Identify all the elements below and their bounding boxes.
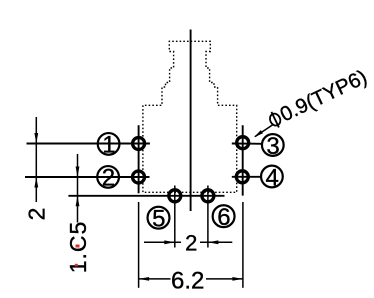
dimension 6.2 line left [139, 278, 171, 280]
dimension 6.2 line right [206, 278, 243, 280]
component outline (dotted stepped profile) [143, 41, 237, 192]
wire row1 right (pad3 to circle 3) [232, 143, 261, 145]
svg-text:3: 3 [266, 133, 279, 160]
svg-text:2: 2 [24, 208, 50, 221]
pad P5 [169, 190, 181, 202]
wire bottom row through pads 5 and 6 [68, 195, 224, 197]
svg-text:2: 2 [102, 165, 115, 192]
dimension 2 (bottom) line right tail [200, 241, 232, 243]
pin label 2 [97, 166, 119, 188]
svg-text:5: 5 [152, 206, 165, 233]
dimension 6.2 ext line right [242, 202, 244, 288]
svg-text:2: 2 [185, 230, 197, 255]
wire left pad column [138, 125, 140, 193]
dimension 6.2 arrow right-pointing [232, 277, 243, 281]
pad P6 [202, 190, 214, 202]
wire row1 left through circle 1 to pad 1 [27, 143, 150, 145]
label phi 0.9 (TYP6) [265, 65, 370, 131]
svg-text:4: 4 [266, 164, 279, 191]
centerline [190, 30, 192, 212]
red scan speck on 1 [75, 264, 78, 267]
leader arrow to pad 3 [255, 124, 274, 136]
svg-text:1: 1 [102, 132, 115, 159]
pad P2 [133, 171, 145, 183]
svg-text:6.2: 6.2 [171, 267, 204, 294]
pin label 6 [213, 205, 235, 227]
dimension 2 (bottom) arrow left-pointing [208, 240, 219, 244]
dimension 2 (bottom) ext line from pad6 [207, 186, 209, 248]
dimension 2 (bottom) arrow right-pointing [164, 240, 175, 244]
red scan speck on C [76, 245, 80, 248]
wire row2 left through circle 2 to pad 2 [25, 176, 150, 178]
wire row2 right (pad4 to circle 4) [232, 176, 261, 178]
pin label 5 [148, 207, 170, 229]
dimension 2 (bottom) line left tail [144, 241, 181, 243]
dimension 1.C5 arrow up [76, 196, 80, 207]
dimension 2 (left) line [35, 117, 37, 202]
pin label 1 [98, 133, 120, 155]
dimension 2 (left) arrow up [34, 177, 38, 188]
pad P4 [236, 171, 248, 183]
pin label 4 [261, 166, 283, 188]
wire right pad column [242, 125, 244, 195]
dimension 6.2 arrow left-pointing [139, 277, 150, 281]
pad P1 [133, 138, 145, 150]
dimension 1.C5 arrow down [76, 167, 80, 178]
dimension 2 (left) arrow down [34, 133, 38, 144]
pad P3 [237, 137, 249, 149]
dimension 1.C5 line [77, 154, 79, 223]
svg-text:6: 6 [217, 204, 230, 231]
dimension 6.2 ext line left [138, 202, 140, 288]
pin label 3 [262, 134, 284, 156]
dimension 2 (bottom) ext line from pad5 [174, 186, 176, 248]
